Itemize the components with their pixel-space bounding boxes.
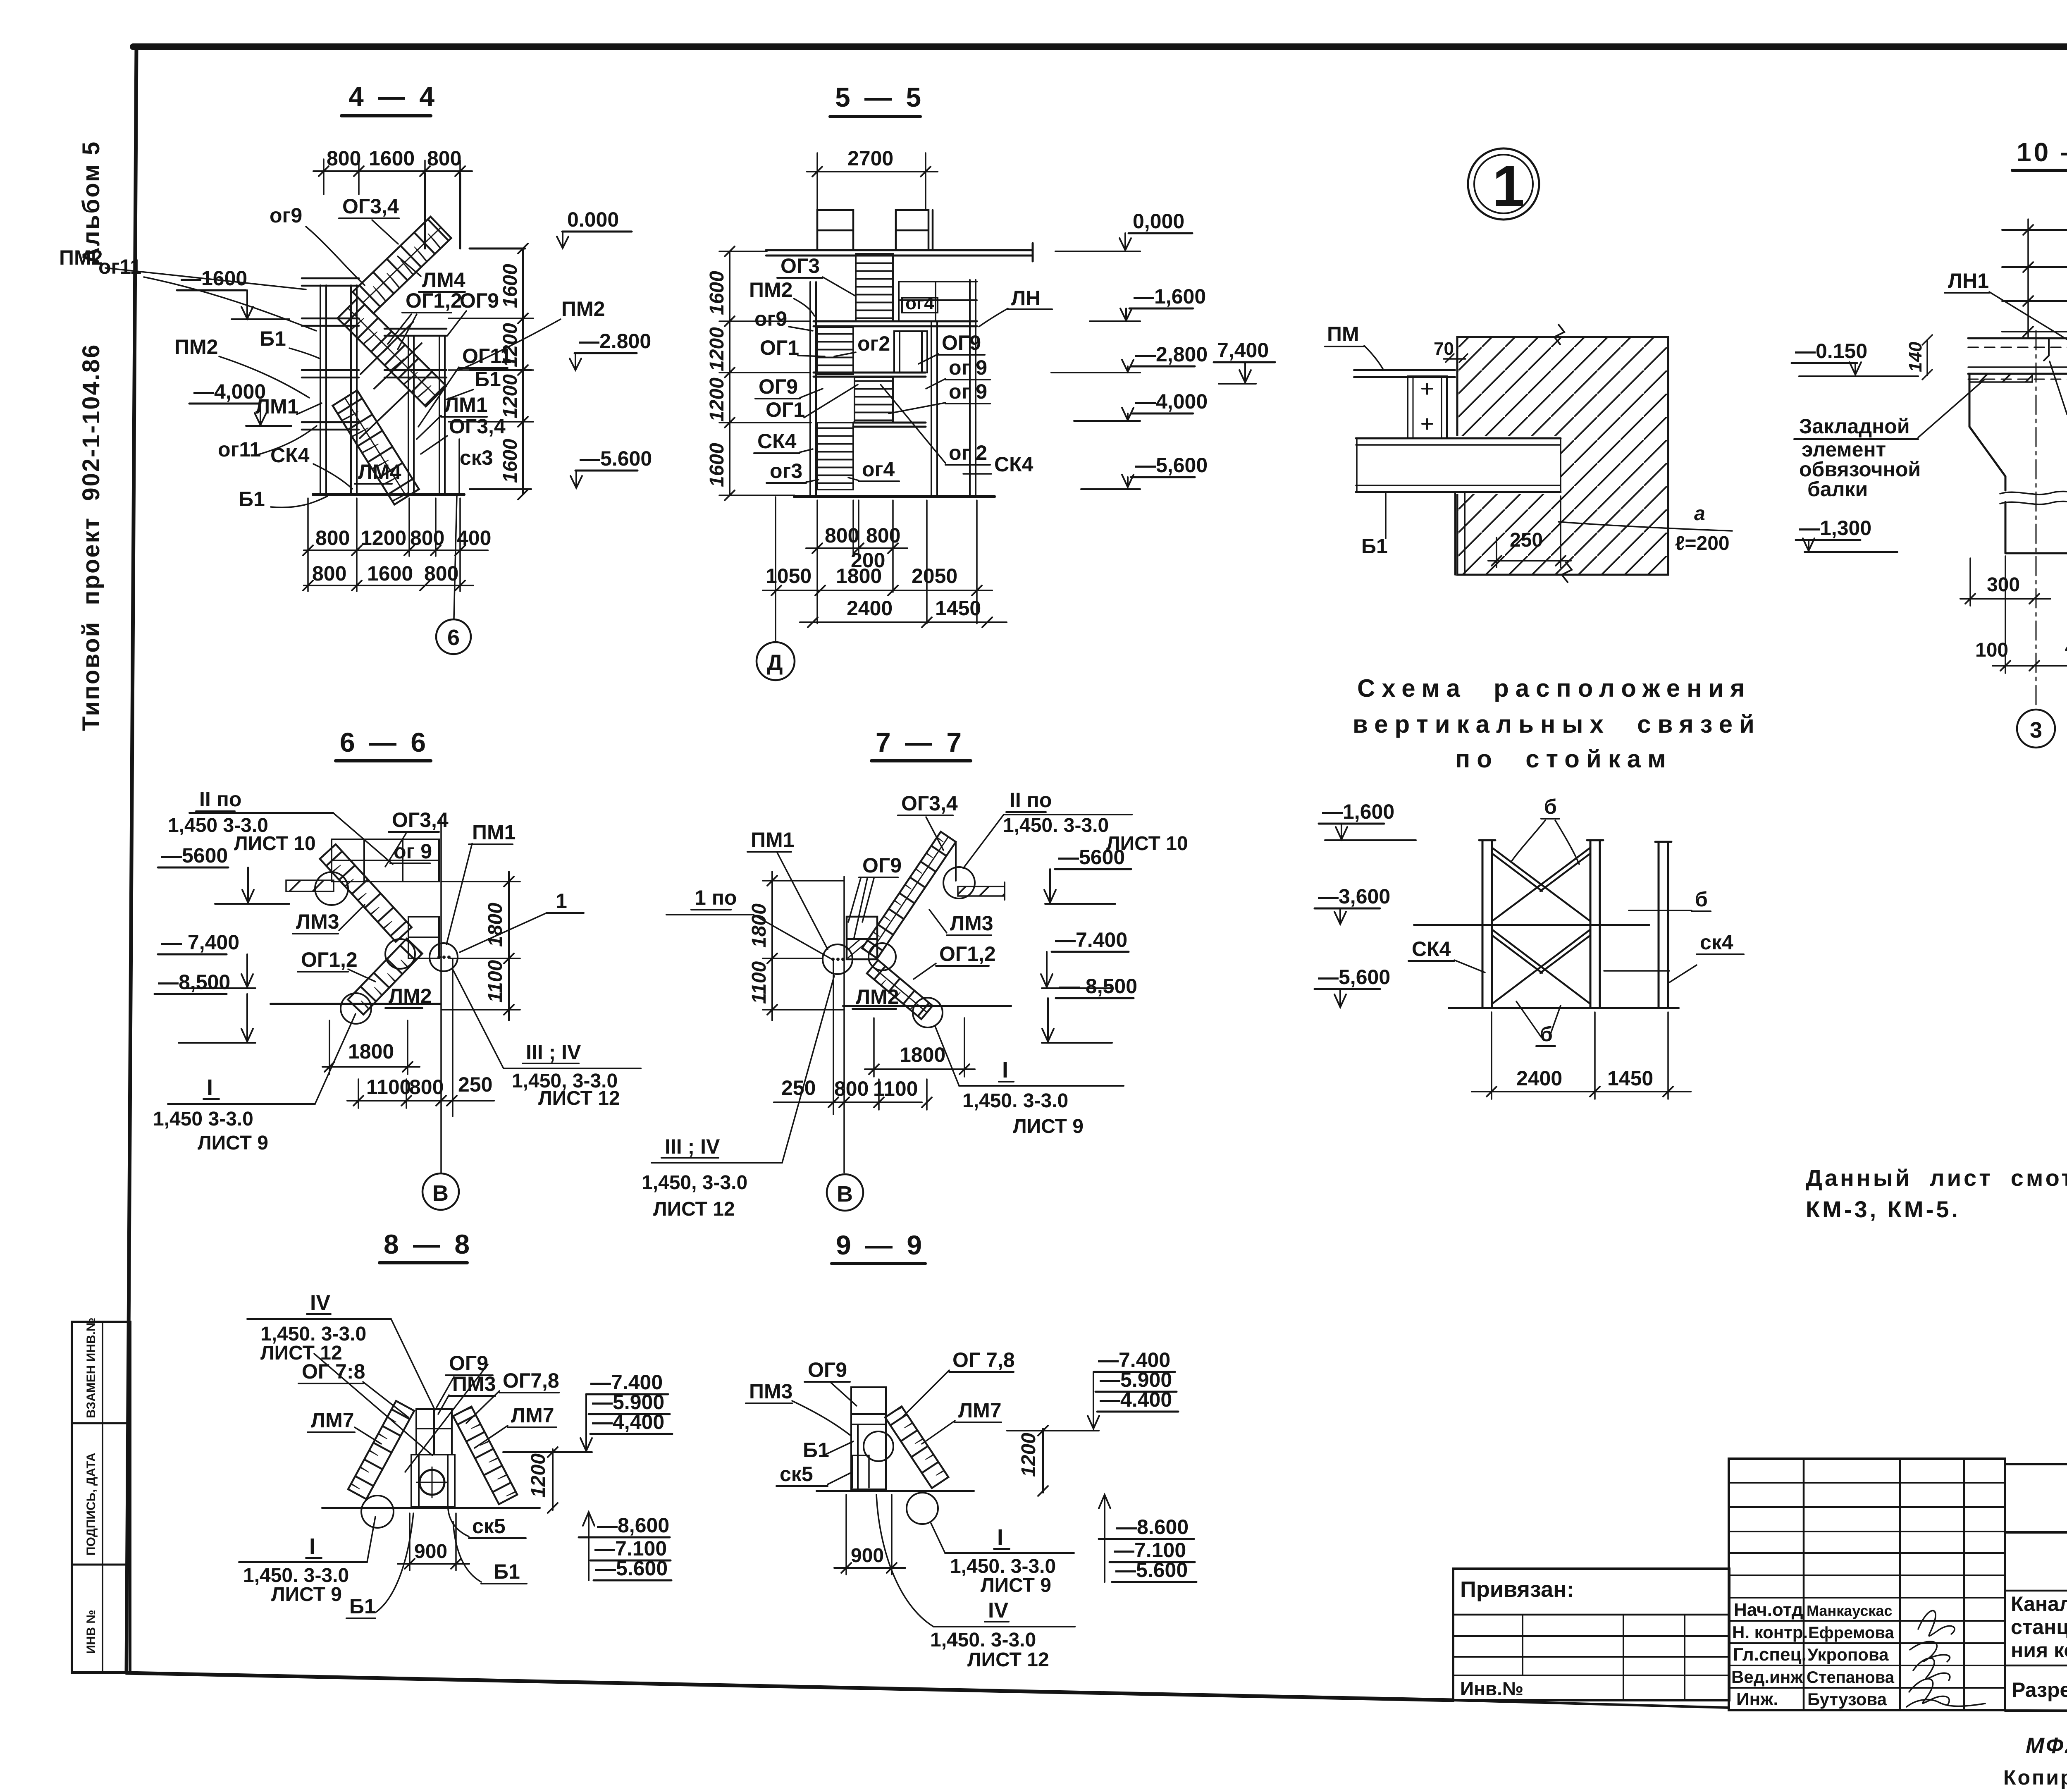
svg-text:ОГ3,4: ОГ3,4 — [901, 792, 958, 815]
mid-right block — [894, 331, 927, 373]
section 5-5 title underline — [830, 115, 920, 118]
title underline — [832, 1262, 925, 1265]
svg-text:ПМ2: ПМ2 — [749, 278, 792, 301]
plate strip (white) — [1352, 367, 1455, 380]
svg-text:ПОДПИСЬ, ДАТА: ПОДПИСЬ, ДАТА — [84, 1453, 98, 1555]
left dim chain — [767, 872, 777, 1020]
top plate — [1354, 370, 1455, 377]
svg-text:—8,500: —8,500 — [158, 970, 230, 994]
beam top flange — [1968, 337, 2067, 339]
svg-text:ПМ2: ПМ2 — [59, 246, 103, 269]
base joint circle — [341, 993, 371, 1024]
svg-text:800: 800 — [866, 524, 900, 547]
beam bottom flange — [1968, 373, 2067, 375]
svg-text:Канализационная насосная: Канализационная насосная — [2011, 1592, 2067, 1615]
svg-text:Степанова: Степанова — [1807, 1668, 1895, 1687]
svg-text:7 — 7: 7 — 7 — [876, 727, 965, 757]
svg-text:ЛН: ЛН — [1011, 287, 1041, 310]
svg-text:ОГ9: ОГ9 — [862, 854, 902, 877]
right dim chain — [504, 872, 514, 1020]
svg-text:Разрезы 4-4÷11-11. Узел 1.: Разрезы 4-4÷11-11. Узел 1. — [2012, 1678, 2067, 1701]
svg-text:800: 800 — [427, 147, 461, 170]
joint circle bottom — [907, 1493, 938, 1524]
column break zigzag — [2000, 492, 2067, 504]
staff table staff rows — [1729, 1598, 2005, 1688]
svg-text:1450: 1450 — [935, 597, 981, 620]
arm joint circle — [943, 867, 975, 898]
beam opening (white) — [1356, 436, 1561, 494]
svg-text:ОГ1,2: ОГ1,2 — [939, 942, 996, 965]
svg-text:1800: 1800 — [836, 564, 882, 588]
svg-text:Б1: Б1 — [494, 1560, 520, 1583]
svg-text:ОГ1,2: ОГ1,2 — [406, 289, 462, 312]
svg-text:1100: 1100 — [873, 1077, 918, 1100]
svg-text:ОГ9: ОГ9 — [759, 375, 798, 398]
channel opening (white) — [1406, 374, 1449, 440]
svg-text:2400: 2400 — [1516, 1067, 1562, 1090]
svg-text:ск3: ск3 — [460, 446, 493, 469]
mid level line — [1414, 924, 1649, 926]
svg-text:6: 6 — [447, 625, 460, 650]
svg-text:—2,800: —2,800 — [1135, 343, 1208, 366]
svg-text:ПМ3: ПМ3 — [749, 1380, 792, 1403]
dim 900 — [410, 1513, 456, 1570]
column inner bracket — [852, 1455, 869, 1488]
svg-text:ОГ3,4: ОГ3,4 — [342, 195, 399, 218]
title underline — [380, 1261, 467, 1264]
dim 900 — [846, 1495, 892, 1575]
svg-text:ОГ1,2: ОГ1,2 — [301, 948, 358, 971]
left column platform bands — [302, 278, 359, 430]
beam lines — [1356, 438, 1561, 492]
corbel column outline — [1969, 374, 2067, 553]
ТП box — [2005, 1464, 2067, 1532]
joint circle right — [869, 943, 896, 970]
base line — [795, 495, 994, 498]
axis circle В — [827, 1174, 863, 1211]
svg-text:2050: 2050 — [912, 564, 957, 588]
svg-text:—8,600: —8,600 — [597, 1514, 669, 1537]
svg-text:1600: 1600 — [367, 562, 413, 585]
staff table columns — [1804, 1459, 1964, 1710]
lower X brace — [1492, 929, 1590, 1004]
stair flight middle — [338, 298, 446, 406]
svg-text:1: 1 — [1492, 153, 1525, 218]
wall hatched block — [1457, 337, 1668, 575]
svg-text:1100: 1100 — [366, 1075, 411, 1099]
right brace band — [453, 1407, 517, 1504]
svg-text:900: 900 — [851, 1545, 884, 1567]
svg-text:ЛИСТ 9: ЛИСТ 9 — [981, 1575, 1051, 1596]
svg-text:800: 800 — [834, 1077, 869, 1100]
cantilever arm hatched — [286, 880, 334, 891]
svg-text:—5,600: —5,600 — [1318, 965, 1390, 989]
svg-text:ЛИСТ 12: ЛИСТ 12 — [538, 1087, 620, 1109]
svg-text:800: 800 — [410, 526, 444, 550]
svg-text:Д: Д — [767, 650, 783, 675]
svg-text:ск5: ск5 — [472, 1515, 506, 1538]
svg-text:ЛМ4: ЛМ4 — [422, 268, 465, 291]
title underline — [871, 759, 971, 762]
svg-text:Манкаускас: Манкаускас — [1807, 1602, 1892, 1619]
staff table outline — [1729, 1459, 2005, 1710]
svg-text:ЛИСТ 10: ЛИСТ 10 — [234, 833, 316, 855]
svg-text:Инж.: Инж. — [1736, 1689, 1778, 1709]
svg-text:1600: 1600 — [499, 264, 521, 308]
platform grid — [332, 839, 439, 882]
svg-text:1200: 1200 — [1018, 1433, 1040, 1477]
svg-text:ИНВ №: ИНВ № — [84, 1610, 98, 1654]
landing level -2.800 — [814, 373, 926, 377]
svg-text:Ефремова: Ефремова — [1808, 1624, 1894, 1642]
svg-text:ℓ=200: ℓ=200 — [1675, 533, 1730, 554]
svg-text:1,450. 3-3.0: 1,450. 3-3.0 — [1003, 815, 1109, 836]
ladder flight bottom left — [817, 423, 853, 490]
svg-text:ог 9: ог 9 — [949, 356, 987, 379]
привязан box — [1453, 1569, 1729, 1700]
svg-text:ВЗАМЕН ИНВ.№: ВЗАМЕН ИНВ.№ — [84, 1318, 98, 1418]
top dim line 800 1600 800 — [313, 166, 472, 176]
top dim extension lines — [324, 159, 460, 248]
right dim chain vertical — [518, 244, 528, 499]
column lower block — [411, 1455, 455, 1507]
привязан column lines — [1523, 1615, 1685, 1700]
node 1 marker double circle — [1468, 148, 1539, 220]
svg-text:МФ2140-06 53: МФ2140-06 53 — [2026, 1733, 2067, 1758]
svg-text:Б1: Б1 — [239, 487, 265, 511]
svg-text:ск4: ск4 — [1700, 931, 1733, 954]
svg-text:300: 300 — [1987, 574, 2020, 596]
upper right platform grid — [899, 282, 977, 321]
svg-text:1050: 1050 — [766, 564, 812, 588]
structure mid-right wall — [931, 321, 937, 495]
svg-text:1100: 1100 — [748, 961, 770, 1004]
svg-text:III ; IV: III ; IV — [665, 1135, 720, 1158]
svg-text:IV: IV — [310, 1291, 330, 1315]
svg-text:1,450 3-3.0: 1,450 3-3.0 — [153, 1108, 253, 1130]
svg-text:ЛИСТ 9: ЛИСТ 9 — [198, 1132, 268, 1154]
column top block — [416, 1409, 452, 1455]
svg-text:ЛИСТ 9: ЛИСТ 9 — [1013, 1116, 1084, 1137]
svg-text:2400: 2400 — [847, 597, 893, 620]
svg-text:ог9: ог9 — [754, 307, 787, 330]
svg-text:СК4: СК4 — [1412, 937, 1451, 961]
schema bottom dim 2400 1450 — [1472, 1087, 1691, 1097]
staff table upper grid rows — [1729, 1483, 2005, 1575]
joint circle left — [385, 939, 415, 969]
svg-text:1800: 1800 — [348, 1040, 394, 1063]
border left — [127, 47, 136, 1673]
right column bands — [384, 329, 446, 378]
flight upper band — [320, 844, 412, 942]
dim 1200 vertical — [548, 1447, 558, 1513]
svg-text:I: I — [309, 1534, 315, 1559]
svg-text:ПМ: ПМ — [1327, 323, 1359, 346]
svg-text:—7.400: —7.400 — [1055, 928, 1127, 951]
base line — [817, 1490, 974, 1492]
border bottom — [127, 1673, 1453, 1700]
svg-text:ЛМ3: ЛМ3 — [296, 910, 339, 933]
svg-text:1200: 1200 — [527, 1453, 549, 1498]
landing level -4.000 — [853, 423, 926, 427]
svg-text:—4,000: —4,000 — [1135, 390, 1208, 413]
base line — [271, 1003, 440, 1005]
svg-text:ОГ3: ОГ3 — [780, 254, 820, 277]
svg-text:КМ-3, КМ-5.: КМ-3, КМ-5. — [1806, 1196, 1960, 1222]
svg-text:3: 3 — [2030, 718, 2042, 743]
svg-text:ЛМ1: ЛМ1 — [255, 395, 299, 418]
svg-text:6 — 6: 6 — 6 — [340, 727, 429, 757]
upper X brace — [1492, 848, 1590, 921]
svg-text:Нач.отд: Нач.отд — [1734, 1600, 1803, 1620]
platform level -1.600 — [814, 321, 977, 326]
svg-text:ОГ9: ОГ9 — [942, 331, 981, 354]
landing block — [408, 917, 439, 958]
flight upper band (up-right) — [862, 832, 956, 958]
svg-text:1800: 1800 — [748, 903, 770, 948]
svg-text:0,000: 0,000 — [1133, 210, 1184, 233]
svg-text:Н. контр.: Н. контр. — [1732, 1622, 1808, 1642]
svg-text:ог9: ог9 — [270, 204, 302, 227]
dim row 600 600 — [2002, 296, 2067, 306]
centerline vertical — [2036, 331, 2037, 708]
svg-text:Закладной: Закладной — [1799, 415, 1910, 438]
svg-text:ог 2: ог 2 — [949, 441, 987, 464]
svg-text:—5,600: —5,600 — [1135, 454, 1208, 477]
svg-text:400: 400 — [2065, 637, 2067, 659]
svg-text:250: 250 — [458, 1073, 492, 1096]
svg-text:—1,600: —1,600 — [1134, 285, 1206, 308]
svg-text:900: 900 — [414, 1541, 447, 1563]
svg-text:800: 800 — [312, 562, 346, 585]
bottom extension lines — [308, 498, 460, 591]
top support block right — [896, 210, 933, 250]
svg-text:ОГ11: ОГ11 — [462, 344, 512, 368]
axis line to circle 6 — [454, 496, 457, 619]
svg-text:—8.600: —8.600 — [1116, 1515, 1189, 1539]
svg-text:ЛМ3: ЛМ3 — [950, 912, 993, 935]
svg-text:ЛИСТ 12: ЛИСТ 12 — [653, 1198, 735, 1220]
svg-text:1450: 1450 — [1607, 1067, 1653, 1090]
border top — [133, 43, 2067, 50]
svg-text:Инв.№: Инв.№ — [1460, 1678, 1523, 1699]
flight lower band (down-right) — [867, 960, 933, 1019]
svg-text:1200: 1200 — [360, 526, 406, 550]
wall break marks — [1554, 325, 1572, 582]
svg-text:1200: 1200 — [499, 374, 521, 418]
svg-text:—5.600: —5.600 — [595, 1557, 668, 1580]
svg-text:ОГ9: ОГ9 — [460, 289, 499, 312]
svg-text:5 — 5: 5 — 5 — [835, 82, 924, 112]
svg-text:ПМ3: ПМ3 — [452, 1372, 496, 1395]
svg-text:9 — 9: 9 — 9 — [836, 1230, 925, 1260]
svg-text:1600: 1600 — [369, 147, 415, 170]
axis circle Д — [757, 642, 795, 680]
channel stiffener — [1408, 376, 1447, 438]
svg-text:1,450. 3-3.0: 1,450. 3-3.0 — [962, 1090, 1068, 1112]
stamp strip divider vertical — [102, 1322, 103, 1673]
svg-text:a: a — [1694, 503, 1705, 525]
svg-text:I: I — [997, 1525, 1003, 1550]
title underline — [336, 759, 431, 762]
leader a e=200 — [1559, 522, 1732, 531]
joint circle axis with dots — [430, 943, 458, 971]
channel plus marks — [1422, 384, 1432, 429]
svg-text:8 — 8: 8 — 8 — [384, 1229, 473, 1259]
svg-text:СК4: СК4 — [270, 444, 310, 467]
axis vertical line — [843, 877, 845, 1173]
structure right wall — [970, 280, 976, 495]
dim extension verticals — [2028, 219, 2067, 338]
svg-text:б: б — [1695, 888, 1708, 911]
long leaders crossing — [314, 1354, 488, 1472]
svg-text:1: 1 — [556, 889, 567, 913]
svg-text:— 8,500: — 8,500 — [1059, 975, 1137, 998]
svg-text:ПМ1: ПМ1 — [472, 821, 516, 844]
svg-text:Типовой проект 902-1-104.86: Типовой проект 902-1-104.86 — [78, 344, 105, 731]
axis circle В — [422, 1173, 459, 1210]
svg-text:ск5: ск5 — [780, 1462, 813, 1486]
svg-text:СК4: СК4 — [994, 453, 1033, 476]
ladder flight center — [854, 377, 893, 423]
svg-text:1,450, 3-3.0: 1,450, 3-3.0 — [642, 1172, 747, 1194]
svg-text:100: 100 — [1975, 639, 2008, 661]
bottom dim row2 800 1600 800 — [303, 581, 473, 590]
svg-text:ОГ3,4: ОГ3,4 — [449, 415, 506, 438]
svg-text:ЛМ2: ЛМ2 — [856, 985, 899, 1008]
flight top end plate — [955, 842, 957, 881]
structure left wall — [810, 282, 816, 495]
svg-text:Б1: Б1 — [1361, 535, 1388, 558]
svg-text:ЛМ4: ЛМ4 — [358, 460, 401, 483]
svg-text:1200: 1200 — [706, 327, 728, 371]
cantilever arm hatched — [958, 886, 1005, 896]
axis line to circle Д — [775, 497, 776, 642]
chain extension lines — [449, 318, 533, 422]
svg-text:400: 400 — [457, 526, 491, 550]
bottom extensions — [817, 500, 977, 624]
svg-text:ПМ2: ПМ2 — [561, 297, 605, 320]
beam bottom dashed line — [1968, 379, 2067, 380]
svg-text:В: В — [837, 1182, 853, 1207]
base joint circle — [913, 998, 943, 1027]
axis vertical line — [440, 817, 442, 1173]
svg-text:—4,400: —4,400 — [592, 1410, 664, 1434]
axis circle 6 — [436, 619, 471, 654]
weld hook 1 — [2044, 338, 2049, 361]
svg-text:—0.150: —0.150 — [1795, 339, 1867, 363]
brace band — [885, 1407, 948, 1488]
svg-text:1800: 1800 — [900, 1043, 945, 1066]
svg-text:Схема расположения: Схема расположения — [1357, 674, 1751, 702]
left twin column verticals — [320, 285, 357, 495]
svg-text:—4,000: —4,000 — [193, 380, 266, 403]
svg-text:1 по: 1 по — [695, 886, 737, 909]
svg-text:800: 800 — [409, 1075, 444, 1099]
column outline — [851, 1387, 886, 1489]
svg-text:ог11: ог11 — [98, 255, 141, 278]
svg-text:ЛМ1: ЛМ1 — [444, 393, 488, 416]
svg-text:—1600: —1600 — [181, 267, 247, 290]
svg-text:ог4: ог4 — [905, 293, 934, 313]
svg-text:Привязан:: Привязан: — [1460, 1577, 1574, 1602]
svg-text:—1,600: —1,600 — [1322, 800, 1394, 823]
joint circle axis with dots — [823, 944, 852, 974]
landing block inner hatch — [848, 939, 868, 958]
ground line — [1449, 1007, 1678, 1009]
left brace band — [348, 1401, 414, 1499]
svg-text:ЛМ2: ЛМ2 — [389, 984, 432, 1008]
svg-text:—5.600: —5.600 — [580, 447, 652, 470]
svg-text:Гл.спец.: Гл.спец. — [1733, 1644, 1807, 1665]
svg-text:ог 9: ог 9 — [949, 380, 987, 403]
svg-text:ОГ7,8: ОГ7,8 — [503, 1369, 559, 1392]
svg-text:ЛМ7: ЛМ7 — [958, 1399, 1002, 1422]
svg-text:Б1: Б1 — [803, 1438, 829, 1462]
svg-text:—5600: —5600 — [1058, 846, 1125, 869]
svg-text:ог11: ог11 — [218, 438, 261, 461]
svg-text:70: 70 — [1434, 339, 1454, 359]
dim 1200 vertical — [1038, 1426, 1048, 1496]
svg-text:I: I — [1002, 1058, 1008, 1082]
arm joint circle — [315, 872, 348, 905]
svg-text:IV: IV — [988, 1598, 1008, 1622]
svg-text:Копировал Л.И.: Копировал Л.И. — [2003, 1766, 2067, 1789]
schema bottom dim extensions — [1492, 1012, 1668, 1099]
axis circle 3 — [2017, 710, 2055, 748]
svg-text:800: 800 — [327, 147, 361, 170]
section 4-4 title underline — [341, 114, 431, 117]
svg-text:800: 800 — [825, 524, 859, 547]
ladder flight left mid — [817, 327, 853, 374]
top support block left — [817, 210, 853, 250]
svg-text:Б1: Б1 — [475, 368, 501, 391]
stamp strip divider rows — [72, 1423, 130, 1565]
svg-text:ОГ1: ОГ1 — [760, 336, 799, 359]
aux vertical line — [452, 958, 453, 1116]
svg-text:Бутузова: Бутузова — [1807, 1689, 1887, 1709]
svg-text:ЛИСТ 9: ЛИСТ 9 — [271, 1584, 342, 1606]
post 2 — [1587, 840, 1603, 1008]
svg-text:4 — 4: 4 — 4 — [348, 81, 438, 112]
svg-text:—5600: —5600 — [161, 844, 228, 867]
beam web line — [1968, 366, 2067, 368]
left chain extensions — [719, 251, 811, 495]
svg-text:ог3: ог3 — [770, 459, 802, 483]
signatures squiggles — [1918, 1610, 1955, 1636]
aux vertical line — [833, 959, 834, 1114]
svg-text:7,400: 7,400 — [1217, 339, 1269, 362]
svg-text:балки: балки — [1807, 478, 1868, 501]
svg-text:станция при глубине заложе-: станция при глубине заложе- — [2011, 1615, 2067, 1639]
svg-text:ОГ3,4: ОГ3,4 — [392, 808, 449, 831]
stair flight lower — [333, 390, 419, 504]
post 1 — [1479, 840, 1495, 1008]
svg-text:Укропова: Укропова — [1807, 1645, 1889, 1664]
svg-text:I: I — [207, 1075, 213, 1100]
svg-text:1600: 1600 — [706, 443, 728, 487]
svg-text:Б1: Б1 — [349, 1595, 376, 1618]
post 3 — [1655, 842, 1671, 1008]
svg-text:ог4: ог4 — [862, 458, 895, 481]
svg-text:1600: 1600 — [499, 439, 521, 483]
svg-text:1,450. 3-3.0: 1,450. 3-3.0 — [930, 1629, 1036, 1651]
svg-text:ОГ1: ОГ1 — [766, 398, 805, 421]
top beam — [766, 243, 1033, 261]
svg-text:250: 250 — [1510, 529, 1543, 551]
svg-text:—4.400: —4.400 — [1100, 1388, 1172, 1411]
svg-text:ЛМ7: ЛМ7 — [511, 1404, 554, 1427]
